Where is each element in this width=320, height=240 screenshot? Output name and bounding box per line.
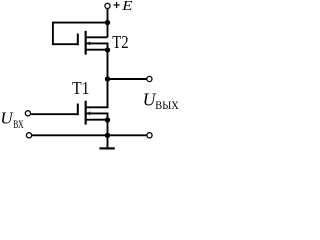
wire output node down to T1 drain (86, 79, 108, 107)
label Uvyh (143, 90, 179, 112)
svg-text:ВХ: ВХ (13, 117, 24, 131)
junction dot B (T2 source / output node) (105, 47, 110, 52)
wire input to T1 gate (31, 113, 79, 115)
T1 substrate arrow (87, 111, 91, 115)
transistor T1 channel bar (85, 101, 87, 125)
transistor T2 channel bar (85, 31, 87, 55)
wire to ground (107, 135, 109, 147)
wire T1 source to bottom rail (107, 120, 109, 135)
label Uvh (0, 109, 23, 132)
label +E (114, 0, 134, 14)
T1 source stub (86, 119, 108, 121)
T1 substrate stub (86, 113, 108, 120)
T2 source stub (86, 49, 108, 51)
wire T2 source down to output tap (107, 50, 109, 79)
terminal +E (105, 3, 110, 8)
svg-text:Т2: Т2 (112, 32, 128, 52)
bottom rail wire (32, 134, 147, 136)
wire gate loop of T2 (gate tied to drain) (53, 23, 107, 45)
svg-text:U: U (0, 109, 14, 128)
T2 drain stub (86, 36, 108, 38)
junction dot D (T1 source) (105, 117, 110, 122)
wire +E rail down to T2 drain (107, 8, 109, 37)
junction dot E (ground tap) (105, 133, 110, 138)
terminal input upper (25, 111, 30, 116)
transistor T1 gate bar (77, 104, 79, 116)
terminal bottom right (147, 133, 152, 138)
ground bar (99, 147, 114, 149)
T2 substrate stub (86, 43, 108, 50)
terminal input lower (26, 133, 31, 138)
svg-text:ВЫХ: ВЫХ (155, 98, 179, 112)
T2 substrate arrow (87, 41, 91, 45)
wire to output terminal (108, 78, 147, 80)
terminal output (147, 76, 152, 81)
junction dot A (gate loop taps +E) (105, 20, 110, 25)
svg-text:Т1: Т1 (72, 78, 89, 98)
transistor T2 gate bar (77, 34, 79, 46)
svg-text:E: E (121, 0, 133, 14)
junction dot C (output tap) (105, 76, 110, 81)
